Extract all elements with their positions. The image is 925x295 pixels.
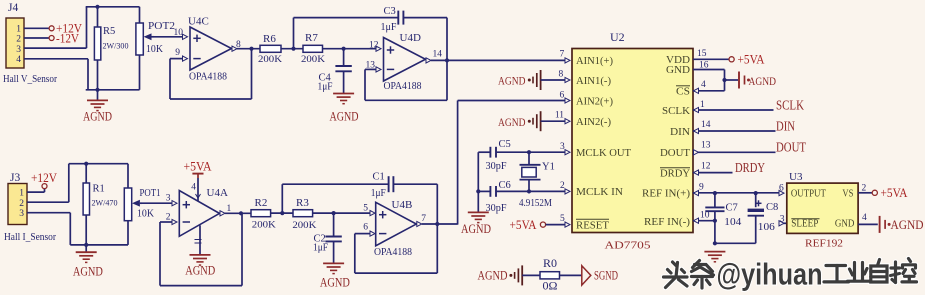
op-amp U4D [384, 38, 426, 82]
power port +12V terminal circle at J3 [42, 184, 47, 189]
junction node C6 left [476, 189, 480, 193]
svg-text:AGND: AGND [320, 276, 350, 290]
svg-text:SLEEP: SLEEP [791, 218, 818, 229]
op-amp U4A minus sign [183, 221, 190, 223]
pin 6 arrow of U4B [370, 231, 375, 236]
op-amp U4C minus sign [193, 58, 200, 60]
label Hall I_Sensor [4, 232, 56, 243]
power label +5VA at U4A [184, 160, 212, 174]
wire SCLK net [693, 109, 774, 111]
pin 14 arrow of U2 DIN [694, 128, 699, 133]
svg-text:1μF: 1μF [313, 243, 328, 254]
label R5 [103, 26, 115, 37]
pin 12 arrow of U2 DRDY [694, 170, 699, 175]
value 10K for POT2 [146, 44, 163, 55]
junction node U4A output [239, 211, 243, 215]
svg-text:AGND: AGND [83, 110, 112, 124]
pin number 10 of U2 [700, 210, 710, 220]
svg-text:AGND: AGND [330, 110, 359, 124]
svg-text:REF IN(+): REF IN(+) [642, 189, 691, 200]
svg-text:104: 104 [724, 217, 741, 228]
wire DIN net [693, 130, 776, 132]
power bar +5VA symbol at U4A [192, 174, 203, 178]
pin 13 arrow of U4D [376, 67, 381, 72]
svg-text:AIN2(+): AIN2(+) [576, 96, 614, 107]
ground AGND below C2 [323, 263, 344, 273]
wire U4D feedback right riser [446, 60, 448, 100]
svg-text:5: 5 [560, 214, 565, 224]
IC U3 REF192 body [787, 183, 858, 233]
pin 6 arrow of U3 [779, 191, 784, 196]
pin 13 arrow of U2 DOUT [694, 150, 699, 155]
svg-text:DIN: DIN [776, 118, 795, 133]
svg-text:J3: J3 [10, 172, 20, 184]
svg-text:15: 15 [697, 49, 707, 59]
wire C8 bottom stem [755, 216, 757, 244]
wire U4C feedback right riser [251, 49, 253, 99]
wire U4B feedback right riser [436, 224, 438, 273]
U2 pin name AIN2(+) [576, 96, 614, 107]
resistor R2 [251, 210, 271, 217]
junction node between R2 and R3 [280, 211, 284, 215]
value 1uF for C2 [313, 243, 328, 254]
svg-text:1: 1 [227, 204, 232, 214]
connector J4 [6, 18, 24, 68]
junction node ground rail R1 [84, 243, 88, 247]
capacitor C8 polarized [748, 193, 764, 216]
junction node R1 top [84, 162, 88, 166]
watermark text [664, 258, 917, 292]
pin 5 arrow of U4B [370, 211, 375, 216]
svg-text:OPA4188: OPA4188 [189, 71, 227, 82]
svg-text:AGND: AGND [749, 74, 777, 88]
svg-text:2: 2 [560, 181, 565, 191]
wire C1 feedback top left segment [282, 183, 388, 185]
pin 1 arrow of U2 [694, 107, 699, 112]
svg-text:2: 2 [16, 35, 21, 45]
pin 2 arrow of U2 [565, 189, 570, 194]
label Y1 [542, 162, 555, 173]
pin number 1 of U4A [227, 204, 232, 214]
pin 11 glyph of U4A [195, 240, 202, 244]
label AGND at R0 [478, 269, 508, 283]
pin 4 glyph of U4A [196, 194, 201, 198]
ground AGND below crystal rail [468, 212, 489, 222]
svg-text:12: 12 [701, 161, 711, 171]
pin number 2 of U4A [166, 213, 171, 223]
pin number 14 of U4D [433, 50, 443, 60]
wire J3 pin2 horizontal [27, 201, 69, 203]
potentiometer POT1 body [124, 188, 131, 221]
resistor R7 [303, 45, 323, 52]
svg-text:4: 4 [191, 183, 196, 193]
wire R7 to U4D pin12 [323, 48, 376, 50]
junction node crystal bottom [527, 189, 531, 193]
U2 pin name REF IN(+) [642, 189, 691, 200]
pin number 12 of U2 [701, 161, 711, 171]
pin 7 arrow of U2 [565, 58, 570, 63]
wire REF IN(-) to C7 [693, 220, 715, 222]
pin number 3 of U4A [166, 193, 171, 203]
wire U3 VS to +5VA [858, 192, 872, 194]
pin number 9 of U2 [699, 182, 704, 192]
power port +5VA terminal circle at RESET [540, 222, 545, 227]
label C1 [373, 172, 385, 183]
value 4.9152M for Y1 [519, 198, 552, 209]
svg-text:3: 3 [166, 193, 171, 203]
svg-text:RESET: RESET [576, 220, 610, 231]
svg-text:6: 6 [779, 183, 784, 193]
wire C6 to left rail [478, 190, 490, 192]
svg-text:C7: C7 [726, 203, 738, 214]
pin number 13 of U2 [701, 141, 711, 151]
capacitor C1 [389, 176, 394, 192]
power AGND bar symbol at U2 pin8 [528, 70, 541, 90]
op-amp U4B [376, 202, 417, 246]
net label DRDY [735, 160, 765, 175]
wire C5 to left rail [478, 151, 490, 153]
pin number 6 of U4B [363, 222, 368, 232]
svg-text:AGND: AGND [73, 264, 103, 278]
wire J4 pin1 to +12V [24, 27, 49, 29]
power label -12V [56, 31, 79, 45]
value 10K for POT1 [137, 209, 154, 220]
resistor R0 [540, 272, 560, 279]
wire AIN2(+) horizontal [458, 100, 565, 102]
pin number 7 of U4B [421, 214, 426, 224]
connector J3 pin numbers [19, 189, 24, 220]
resistor R3 [293, 210, 313, 217]
svg-text:U4C: U4C [188, 16, 209, 28]
connector J4 reference label [8, 2, 18, 14]
wire J3 pin1 to +12V [27, 191, 45, 193]
capacitor C7 [705, 207, 724, 211]
pin number 4 of U2 [701, 80, 706, 90]
op-amp U4C [190, 27, 232, 70]
svg-text:2: 2 [166, 213, 171, 223]
value 106 for C8 [758, 222, 775, 233]
label U4D [400, 32, 421, 44]
wire C6 to MCLK IN [496, 190, 565, 192]
label OPA4188 of U4B [374, 247, 412, 258]
U2 pin name VDD [666, 55, 690, 66]
svg-text:7: 7 [421, 214, 426, 224]
svg-text:3: 3 [19, 209, 24, 219]
label C6 [499, 180, 511, 191]
svg-text:13: 13 [366, 60, 376, 70]
U2 pin name SCLK [662, 106, 690, 117]
label AGND bottom-left [73, 264, 103, 278]
wire ground stem R5 rail [97, 90, 99, 100]
svg-text:14: 14 [433, 50, 443, 60]
label Hall V_Sensor [3, 74, 57, 85]
value 1uF for C1 [371, 188, 386, 199]
label SLEEP stub pin3 of U3 [779, 221, 787, 226]
U2 pin name AIN1(-) [576, 76, 612, 87]
pin number 15 of U2 [697, 49, 707, 59]
pin 6 arrow of U2 [565, 98, 570, 103]
svg-text:C5: C5 [499, 139, 511, 150]
svg-text:200K: 200K [252, 221, 276, 231]
wire AGND bar to R0 [522, 274, 540, 276]
pin number 13 of U4D [366, 60, 376, 70]
svg-text:+5VA: +5VA [184, 160, 212, 174]
wire ground rail of R5/POT2 [86, 89, 140, 91]
svg-text:4: 4 [862, 213, 867, 223]
connector J4 pin numbers [16, 25, 21, 65]
junction node ground rail R5 [95, 88, 99, 92]
svg-text:DIN: DIN [670, 127, 690, 138]
wire AGND to U2 pin8 [541, 79, 565, 81]
capacitor C3 [398, 11, 403, 25]
svg-text:+5VA: +5VA [881, 186, 908, 200]
wire J3 pin1 riser [44, 189, 46, 193]
net label DIN [776, 118, 795, 133]
U2 pin name MCLK IN [576, 187, 623, 198]
svg-text:REF192: REF192 [805, 237, 843, 249]
wire J4 pin3 horizontal [24, 47, 87, 49]
svg-text:16: 16 [699, 61, 709, 71]
svg-text:-12V: -12V [56, 31, 79, 45]
svg-text:12: 12 [369, 40, 379, 50]
op-amp U4A plus sign [183, 201, 190, 208]
svg-text:10K: 10K [146, 44, 163, 55]
pin 3 arrow of U2 [565, 150, 570, 155]
svg-text:2: 2 [862, 184, 867, 194]
ground AGND below C4 [333, 94, 354, 104]
pin number 5 of U2 [560, 214, 565, 224]
svg-text:R3: R3 [296, 197, 309, 209]
svg-text:2W/300: 2W/300 [103, 41, 129, 51]
junction node R3 output C2 [332, 211, 336, 215]
wire R2 to R3 [271, 212, 293, 214]
wire R3 to U4B pin5 [313, 212, 370, 214]
svg-text:REF IN(-): REF IN(-) [644, 217, 691, 228]
svg-text:VS: VS [842, 188, 853, 199]
U2 pin name GND [666, 65, 690, 76]
svg-text:R6: R6 [263, 33, 276, 45]
svg-text:9: 9 [175, 48, 180, 58]
wire U4A pin11 ground stem [199, 225, 201, 254]
potentiometer POT1 wiper arrow [132, 200, 142, 207]
label AD7705 [605, 239, 652, 251]
svg-text:13: 13 [701, 141, 711, 151]
net label SCLK [776, 97, 804, 112]
svg-text:1: 1 [700, 100, 705, 110]
value 200K for R3 [292, 221, 316, 231]
wire U4A output to R2 [225, 212, 251, 214]
svg-text:+5VA: +5VA [738, 52, 765, 66]
wire GND tie to AGND bar [725, 79, 739, 81]
svg-text:4: 4 [16, 55, 21, 65]
svg-text:106: 106 [758, 222, 775, 233]
wire C4 stem [343, 49, 345, 66]
label AGND at U2 pin11 [498, 115, 526, 129]
svg-text:200K: 200K [292, 221, 316, 231]
svg-text:4: 4 [701, 80, 706, 90]
value 200K for R2 [252, 221, 276, 231]
svg-text:GND: GND [666, 65, 690, 76]
wire C1 feedback riser left [281, 184, 283, 213]
wire R5 bottom stem [97, 60, 99, 90]
U3 pin name SLEEP with overline [791, 218, 819, 229]
svg-text:GND: GND [835, 218, 855, 229]
svg-text:2W/470: 2W/470 [92, 197, 118, 207]
svg-text:MCLK OUT: MCLK OUT [576, 148, 632, 159]
crystal Y1 [520, 152, 541, 191]
label R1 [93, 183, 105, 194]
pin number 2 of U2 [560, 181, 565, 191]
wire POT1 bottom stem [127, 221, 129, 245]
wire C3 feedback right drop [446, 18, 448, 61]
junction node between R6 and R7 [291, 47, 295, 51]
wire R1 bottom stem [85, 215, 87, 245]
potentiometer POT2 body [136, 23, 143, 55]
pin number 1 of U2 [700, 100, 705, 110]
label AGND at U3 GND [891, 218, 924, 232]
junction node C7 REFIN- [713, 219, 717, 223]
svg-text:R5: R5 [103, 26, 115, 37]
U3 pin name OUTPUT [791, 188, 826, 199]
wire U4B output to riser [422, 223, 458, 225]
svg-text:R2: R2 [255, 197, 268, 209]
wire J4 pin3 riser to top rail [86, 7, 88, 48]
svg-text:0Ω: 0Ω [543, 278, 558, 292]
svg-text:POT1: POT1 [140, 188, 161, 199]
label R2 [255, 197, 268, 209]
svg-text:C6: C6 [499, 180, 511, 191]
pin number 3 of U3 [780, 215, 785, 225]
label REF192 [805, 237, 843, 249]
U2 pin name DIN [670, 127, 690, 138]
wire C3 feedback top right segment [403, 17, 447, 19]
pin 14 arrow of U4D output [426, 58, 431, 63]
svg-text:Hall V_Sensor: Hall V_Sensor [3, 74, 57, 85]
junction node U4D output [445, 58, 449, 62]
wire POT2 bottom stem [139, 55, 141, 90]
wire R6 to R7 [281, 48, 303, 50]
label U2 [610, 30, 625, 44]
power label +5VA at RESET [510, 218, 537, 232]
wire J3 pin3 drop to ground rail [69, 213, 71, 245]
power port +12V terminal circle [49, 26, 54, 31]
power port +5VA terminal circle at VDD [729, 57, 734, 62]
svg-text:1: 1 [16, 25, 21, 35]
pin number 8 of U2 [559, 70, 564, 80]
power label +5VA at U3 [881, 186, 908, 200]
svg-text:CS: CS [676, 86, 690, 97]
wire ref ground rail [715, 242, 756, 244]
power AGND bar symbol at R0 [509, 265, 522, 285]
svg-text:1μF: 1μF [318, 82, 333, 93]
wire POT1 wiper to U4A pin3 [142, 202, 172, 204]
svg-text:10: 10 [174, 28, 184, 38]
wire U4D feedback left drop [364, 69, 366, 100]
power AGND bar symbol at U3 GND [880, 216, 891, 233]
wire U4A pin4 power stem [197, 178, 199, 202]
svg-text:POT2: POT2 [148, 21, 175, 32]
capacitor C4 [335, 66, 351, 71]
potentiometer POT2 wiper arrow [144, 33, 154, 40]
U2 pin name DOUT [660, 148, 691, 159]
svg-text:1μF: 1μF [381, 22, 397, 33]
wire top rail of R1/POT1 divider [69, 163, 128, 165]
wire R0 to SGND port [560, 274, 582, 276]
wire U4D pin13 stub [365, 68, 376, 70]
svg-text:DOUT: DOUT [660, 148, 691, 159]
label C3 [384, 6, 396, 17]
label C2 [314, 233, 326, 244]
svg-text:C8: C8 [766, 202, 778, 213]
label AGND at U2 GND [749, 74, 777, 88]
label C8 [766, 202, 778, 213]
wire GND/CS tie vertical [724, 70, 726, 91]
svg-text:C1: C1 [373, 172, 385, 183]
op-amp U4B plus sign [379, 211, 386, 218]
value 200K for R6 [258, 55, 282, 65]
op-amp U4C plus sign [193, 35, 200, 42]
U2 pin name RESET with overline [576, 219, 610, 231]
pin number 6 of U3 [779, 183, 784, 193]
U3 pin name VS [842, 188, 853, 199]
wire U4B feedback bottom [355, 272, 438, 274]
op-amp U4D plus sign [387, 46, 394, 53]
resistor R1 [83, 183, 89, 215]
value 200K for R7 [301, 55, 325, 65]
svg-text:AGND: AGND [498, 115, 526, 129]
wire C7 top stem [714, 193, 716, 207]
power label +12V at J3 [31, 171, 57, 185]
svg-text:AD7705: AD7705 [605, 239, 652, 251]
pin 12 arrow of U4D [376, 46, 381, 51]
label U4C [188, 16, 209, 28]
svg-text:9: 9 [699, 182, 704, 192]
svg-text:AIN1(+): AIN1(+) [576, 56, 614, 67]
wire GND pin16 horizontal [693, 69, 725, 71]
label C4 [319, 73, 332, 84]
value 30pF for C6 [486, 203, 507, 214]
svg-text:6: 6 [560, 91, 565, 101]
label AGND at U2 pin8 [498, 74, 526, 88]
label AGND below C2 [320, 276, 350, 290]
junction node U4C output feedback [249, 47, 253, 51]
wire C1 feedback top right segment [393, 183, 437, 185]
power AGND bar symbol at U2 pin11 [528, 111, 541, 131]
value 2W/300 for R5 [103, 41, 129, 51]
op-amp U4D minus sign [387, 68, 394, 70]
svg-text:14: 14 [701, 120, 711, 130]
svg-text:30pF: 30pF [486, 161, 507, 172]
wire U4C pin9 stub [170, 58, 183, 60]
label U4B [392, 199, 413, 211]
label AGND top-left [83, 110, 112, 124]
svg-text:J4: J4 [8, 2, 18, 14]
wire VDD to +5VA [693, 58, 729, 60]
pin 7 arrow of U4B output [417, 221, 422, 226]
pin number 5 of U4B [363, 204, 368, 214]
wire C1 feedback right drop [436, 184, 438, 224]
pin 9 arrow of U2 [694, 191, 699, 196]
svg-text:U2: U2 [610, 30, 625, 44]
svg-text:U4D: U4D [400, 32, 421, 44]
wire U4D output to AIN1(+) [431, 59, 565, 61]
power port +5VA terminal circle at U3 [872, 190, 877, 195]
svg-text:SCLK: SCLK [776, 97, 804, 112]
label AGND below crystal [461, 222, 491, 236]
IC U2 AD7705 body [572, 49, 693, 233]
svg-text:U4B: U4B [392, 199, 413, 211]
wire C2 to ground [333, 241, 335, 263]
